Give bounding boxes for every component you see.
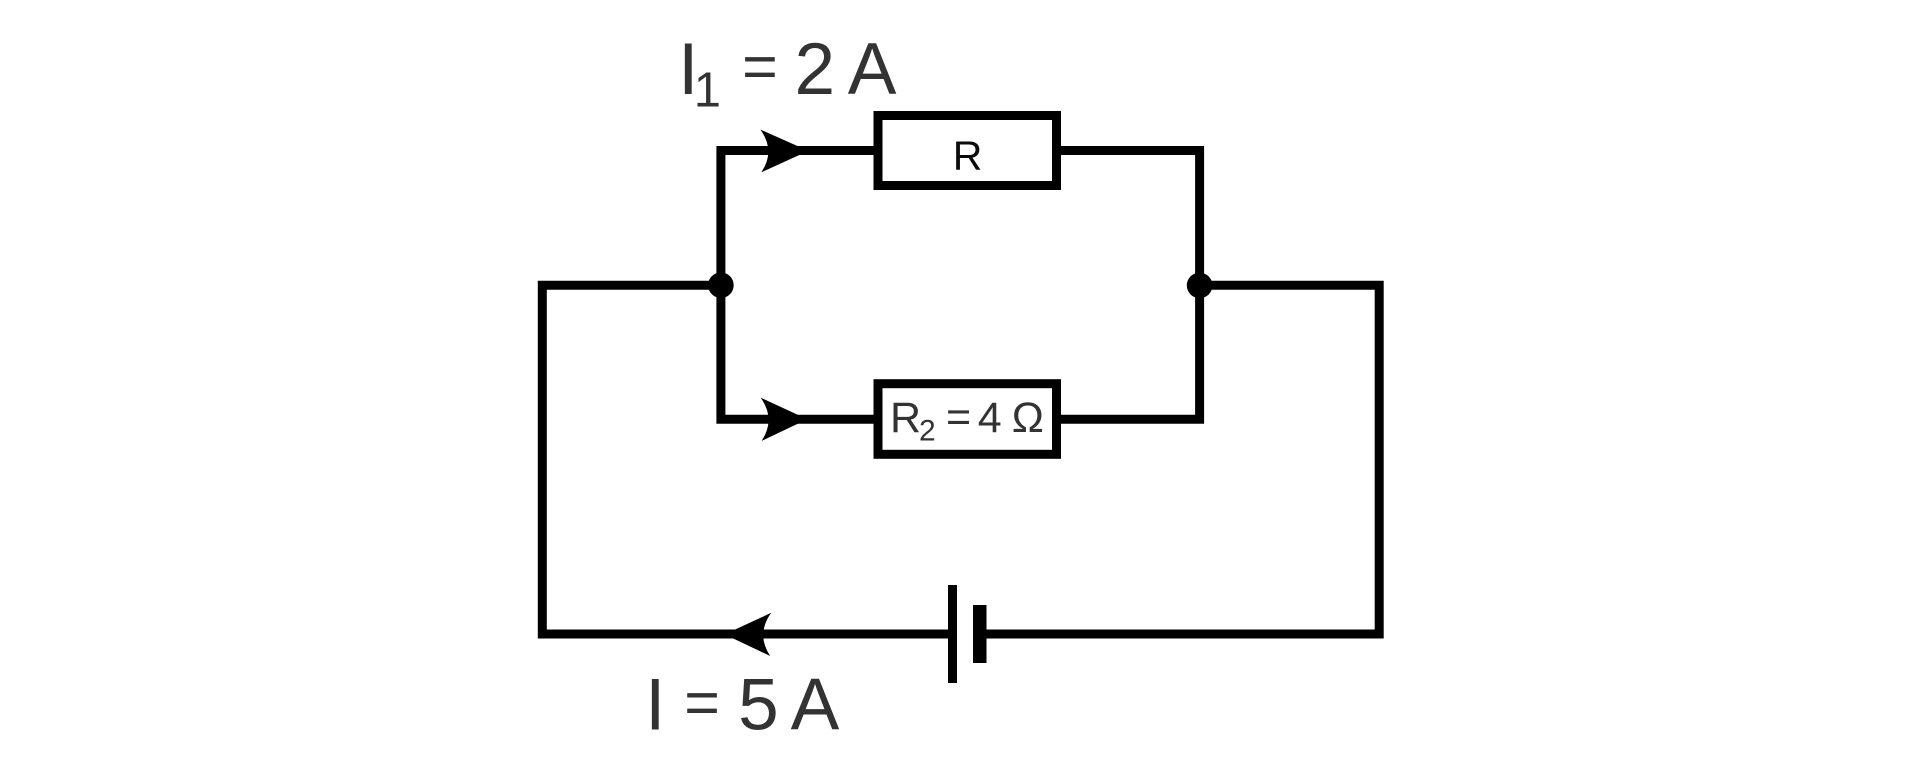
node A (left junction) [708, 272, 734, 298]
arrow: current I on bottom main wire (points left) [725, 613, 772, 656]
arrow: current I2 on bottom branch (points right) [761, 398, 808, 441]
resistor R (top branch box) [878, 116, 1057, 186]
wire: left riser of parallel section (top branch corner to bottom branch corner) [721, 151, 874, 420]
svg-text:R: R [953, 132, 983, 178]
resistor R2 (bottom branch box) [878, 384, 1057, 455]
svg-text:R2=4Ω: R2=4Ω [890, 393, 1044, 448]
node B (right junction) [1187, 273, 1213, 299]
battery: short thick plate (negative terminal) [973, 605, 987, 663]
wire: right outer loop (battery to node) [982, 285, 1379, 634]
wire: right riser of parallel section [1061, 151, 1200, 420]
arrow: current I1 on top branch (points right) [760, 130, 808, 173]
battery: long plate (positive terminal) [948, 585, 957, 683]
wire: left outer loop (node to battery) [542, 285, 952, 634]
